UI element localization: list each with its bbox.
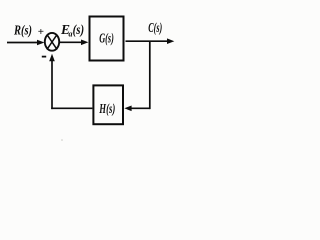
wire feedback tap down bbox=[149, 41, 151, 109]
wire G(s) to output bbox=[126, 40, 168, 42]
wire summing junction to G(s) bbox=[59, 41, 82, 43]
minus sign bbox=[42, 56, 46, 58]
label Ea(s) bbox=[60, 22, 84, 39]
arrowhead into summing junction bbox=[37, 40, 45, 46]
wire H(s) to left bbox=[51, 107, 92, 109]
summing junction X diagonal 1 bbox=[47, 34, 57, 49]
wire feedback up to summing junction bbox=[51, 61, 53, 110]
block H(s) bbox=[93, 85, 123, 124]
svg-text:R(s): R(s) bbox=[13, 22, 32, 37]
svg-text:+: + bbox=[38, 26, 44, 38]
wire input R(s) to summing junction bbox=[7, 42, 39, 44]
block G(s) bbox=[90, 17, 124, 61]
arrowhead into G(s) bbox=[81, 40, 88, 46]
summing junction bbox=[45, 33, 59, 51]
svg-text:H(s): H(s) bbox=[99, 102, 116, 117]
svg-text:G(s): G(s) bbox=[99, 31, 114, 46]
arrowhead into summing junction bottom bbox=[49, 54, 55, 61]
speck bbox=[61, 139, 63, 141]
arrowhead into H(s) bbox=[124, 106, 131, 112]
svg-text:(s): (s) bbox=[73, 22, 85, 37]
arrowhead output C(s) bbox=[167, 38, 174, 44]
summing junction X diagonal 2 bbox=[47, 34, 57, 49]
wire feedback top to H(s) bbox=[131, 107, 150, 109]
svg-text:C(s): C(s) bbox=[148, 21, 162, 36]
